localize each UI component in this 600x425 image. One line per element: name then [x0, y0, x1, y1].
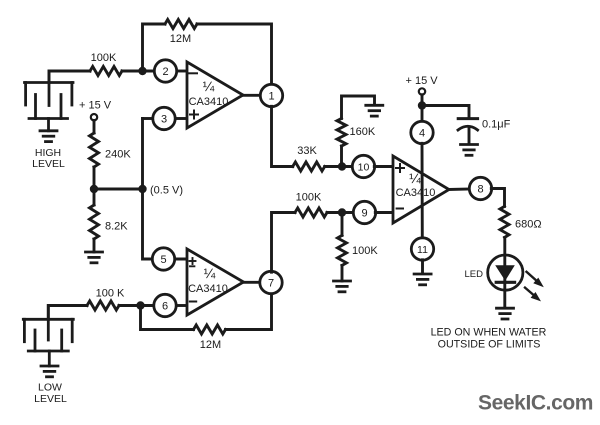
wire pin1-to-33K — [272, 106, 293, 166]
junction 0.5V node — [138, 185, 146, 193]
svg-text:680Ω: 680Ω — [515, 219, 542, 231]
wire pin6 stub — [176, 304, 188, 307]
resistor 680ohm — [500, 206, 509, 237]
svg-text:+ 15 V: + 15 V — [406, 75, 439, 87]
capacitor 0.1uF — [458, 119, 478, 130]
wire node-to-8.2K — [93, 189, 96, 205]
wire feedback right-down — [197, 24, 272, 85]
LED arrow 2 — [525, 288, 541, 302]
wire rail 0.5V — [94, 188, 143, 191]
wire terminal-to-pin4 — [421, 95, 424, 122]
junction divider node — [90, 185, 98, 193]
wire pin11-to-ground — [421, 260, 424, 274]
LED D1 — [488, 255, 523, 290]
caption LED ON WHEN WATER / OUTSIDE OF LIMITS — [431, 327, 547, 351]
svg-text:12M: 12M — [170, 33, 191, 45]
HIGH level probe electrode — [25, 71, 74, 131]
resistor 12M (feedback, upper) — [165, 20, 197, 29]
pin 10 — [352, 155, 374, 177]
wire R2-to-pin6 — [119, 304, 154, 307]
pin 4 — [411, 121, 433, 143]
svg-text:+ 15 V: + 15 V — [79, 100, 112, 112]
ground (8.2K) — [86, 252, 103, 263]
junction pin9 node — [338, 208, 346, 216]
wire 8.2K-to-ground — [93, 239, 96, 252]
wire node-to-cap — [422, 106, 469, 118]
label HIGH LEVEL — [32, 147, 65, 170]
pin 8 — [469, 177, 491, 199]
wire probe-to-R1 — [49, 71, 90, 83]
wire 33K-to-pin10 — [325, 165, 353, 168]
junction pin2 node — [138, 67, 146, 75]
svg-text:100 K: 100 K — [96, 288, 125, 300]
resistor 240K — [90, 133, 99, 167]
op-amp U1 1/4 CA3410 (upper) — [187, 62, 243, 128]
op-amp U3 1/4 CA3410 (output) — [393, 156, 449, 223]
svg-text:CA3410: CA3410 — [188, 283, 228, 295]
pin 2 — [154, 60, 176, 82]
svg-text:9: 9 — [361, 208, 367, 220]
wire 160K bottom — [340, 146, 343, 167]
wire feedback up-left — [143, 24, 166, 71]
ground (100K pulldown) — [334, 281, 351, 292]
svg-text:5: 5 — [160, 254, 166, 266]
wire terminal-to-240K — [93, 120, 96, 133]
wire pin7-to-100K — [272, 213, 296, 273]
svg-text:LED: LED — [465, 269, 484, 280]
wire pin3 left — [143, 117, 154, 120]
pin 3 — [153, 107, 175, 129]
svg-text:10: 10 — [358, 161, 370, 173]
resistor 100 K (R2) — [87, 301, 119, 310]
svg-text:LOW: LOW — [38, 382, 62, 394]
ground (LED) — [497, 308, 514, 319]
terminal +15V right — [419, 88, 425, 94]
wire 100K-to-pin9 — [327, 211, 354, 214]
svg-text:OUTSIDE OF LIMITS: OUTSIDE OF LIMITS — [438, 339, 541, 351]
svg-text:0.1μF: 0.1μF — [482, 119, 511, 131]
wire 680-to-LED-to-ground — [503, 237, 506, 307]
svg-text:100K: 100K — [352, 245, 378, 257]
wire U2 output — [244, 281, 261, 284]
svg-text:LED ON WHEN WATER: LED ON WHEN WATER — [431, 327, 547, 339]
wire 160K-to-ground — [342, 96, 375, 118]
wire pin3 stub — [175, 117, 188, 120]
svg-text:33K: 33K — [297, 145, 317, 157]
ground (HIGH probe) — [40, 131, 57, 142]
wire U1 output — [243, 94, 261, 97]
terminal +15V left — [91, 114, 97, 120]
svg-text:6: 6 — [162, 301, 168, 313]
svg-text:100K: 100K — [296, 192, 322, 204]
ground (LOW probe) — [41, 366, 58, 377]
resistor 8.2K — [90, 205, 99, 239]
svg-text:8: 8 — [477, 184, 483, 196]
pin 9 — [353, 201, 375, 223]
resistor 160K — [337, 118, 346, 146]
ground (pin 11) — [414, 274, 431, 285]
ground (cap) — [461, 145, 478, 156]
pin 1 — [260, 84, 282, 106]
junction +15V node — [418, 101, 426, 109]
wire 240K-to-node — [93, 167, 96, 189]
wire pin5 stub — [174, 258, 187, 261]
svg-text:1: 1 — [268, 91, 274, 103]
resistor 100K (R1) — [90, 67, 122, 76]
LED arrow 1 — [527, 272, 544, 287]
svg-text:240K: 240K — [105, 149, 131, 161]
wire R1-to-pin2 — [122, 70, 155, 73]
resistor 33K — [293, 162, 325, 171]
wire feedback to pin7 — [226, 294, 272, 330]
svg-text:2: 2 — [162, 66, 168, 78]
wire feedback down-right — [141, 306, 194, 330]
svg-text:3: 3 — [161, 114, 167, 126]
wire pin10 stub — [374, 165, 393, 168]
svg-text:12M: 12M — [200, 339, 221, 351]
wire pin8-to-680 — [491, 189, 504, 207]
svg-text:SeekIC.com: SeekIC.com — [478, 392, 593, 415]
resistor 100K (pulldown) — [338, 235, 347, 265]
svg-text:CA3410: CA3410 — [189, 96, 229, 108]
pin 11 — [411, 238, 433, 260]
svg-text:7: 7 — [268, 278, 274, 290]
wire pin4-to-pin11 — [421, 143, 424, 238]
wire pin2 stub — [176, 70, 187, 73]
wire pulldown-to-ground — [341, 265, 344, 281]
svg-text:LEVEL: LEVEL — [32, 158, 65, 170]
svg-text:¼: ¼ — [409, 170, 421, 186]
svg-text:¼: ¼ — [203, 78, 215, 94]
wire probe-to-R2 — [48, 306, 87, 320]
svg-text:11: 11 — [417, 244, 428, 256]
svg-text:CA3410: CA3410 — [396, 187, 436, 199]
pin 7 — [260, 271, 282, 293]
LOW level probe electrode — [23, 306, 73, 367]
ground (160K) — [366, 105, 383, 116]
svg-text:(0.5 V): (0.5 V) — [150, 185, 183, 197]
svg-text:8.2K: 8.2K — [105, 221, 128, 233]
junction pin10 node — [338, 162, 346, 170]
resistor 12M (feedback, lower) — [194, 325, 226, 334]
wire U3 output — [449, 188, 470, 191]
svg-text:100K: 100K — [91, 52, 117, 64]
svg-text:4: 4 — [419, 128, 425, 140]
svg-text:LEVEL: LEVEL — [34, 393, 67, 405]
pin 5 — [152, 248, 174, 270]
junction pin6 node — [136, 301, 144, 309]
wire node-to-100Kpulldown — [341, 213, 344, 236]
label LOW LEVEL — [34, 382, 67, 406]
pin 6 — [154, 294, 176, 316]
wire cap-to-ground — [468, 129, 471, 145]
wire riser pin3/pin5 — [143, 119, 153, 260]
resistor 100K (coupling) — [295, 208, 327, 217]
svg-text:¼: ¼ — [204, 265, 216, 281]
wire pin9 stub — [375, 211, 393, 214]
op-amp U2 1/4 CA3410 (lower) — [187, 249, 244, 315]
svg-text:160K: 160K — [350, 126, 376, 138]
